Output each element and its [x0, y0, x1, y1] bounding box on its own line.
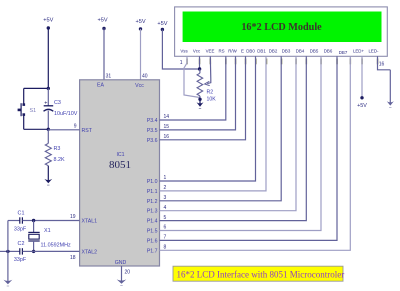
- wire VEE pin 3 to R2 wiper: [207, 56, 211, 83]
- svg-text:P1.1: P1.1: [147, 189, 158, 195]
- svg-text:P1.7: P1.7: [147, 248, 158, 254]
- svg-text:20: 20: [125, 270, 131, 276]
- svg-text:14: 14: [164, 114, 170, 120]
- svg-text:15: 15: [164, 124, 170, 130]
- node reset top junction: [47, 87, 50, 90]
- svg-text:E: E: [241, 49, 244, 54]
- wire Vcc pin 2 down: [199, 56, 201, 69]
- svg-text:+5V: +5V: [157, 21, 167, 27]
- svg-text:DB5: DB5: [310, 49, 319, 54]
- svg-text:C3: C3: [54, 100, 61, 106]
- svg-text:9: 9: [74, 124, 77, 130]
- ground below crystal caps: [7, 251, 9, 281]
- svg-text:8.2K: 8.2K: [54, 157, 65, 163]
- svg-text:31: 31: [106, 73, 112, 79]
- svg-text:P1.4: P1.4: [147, 219, 158, 225]
- wire P3.6 to LCD pin: [160, 56, 246, 140]
- svg-text:DB3: DB3: [282, 49, 291, 54]
- +5V supply at LED+: [357, 96, 367, 109]
- wire caps common down: [7, 221, 9, 252]
- svg-text:5: 5: [164, 215, 167, 221]
- wire P1.2 to DB2: [160, 56, 282, 201]
- caption banner: [173, 266, 344, 281]
- svg-text:XTAL1: XTAL1: [82, 219, 98, 225]
- wire +5V to pin 31: [103, 29, 105, 80]
- ground below LED-: [389, 70, 391, 103]
- wire Vss pin 1 to ground node: [184, 56, 200, 97]
- node RST junction: [47, 128, 50, 131]
- crystal X1: [28, 221, 71, 252]
- svg-text:16*2 LCD Module: 16*2 LCD Module: [241, 22, 322, 33]
- node R2 bottom junction: [198, 98, 201, 101]
- node XTAL1 junction: [32, 219, 35, 222]
- svg-text:+5V: +5V: [97, 18, 107, 24]
- svg-text:R/W: R/W: [228, 49, 237, 54]
- svg-text:Vcc: Vcc: [193, 49, 201, 54]
- svg-text:19: 19: [70, 214, 76, 220]
- svg-text:40: 40: [142, 73, 148, 79]
- svg-text:VEE: VEE: [206, 49, 215, 54]
- svg-text:DB6: DB6: [324, 49, 333, 54]
- svg-text:4: 4: [164, 205, 167, 211]
- svg-text:XTAL2: XTAL2: [82, 250, 98, 256]
- +5V supply (EA): [97, 18, 107, 31]
- +5V supply (reset): [43, 18, 53, 30]
- node R2 top junction: [198, 67, 201, 70]
- LCD module body: [175, 7, 388, 56]
- LCD pin name labels: [180, 49, 379, 55]
- wire LED- pin 16 jog: [378, 56, 391, 70]
- wire S1 bottom to RST node: [24, 128, 49, 130]
- svg-text:S1: S1: [30, 108, 37, 114]
- wire RST node to pin 9: [48, 129, 79, 131]
- svg-text:P3.5: P3.5: [147, 128, 158, 134]
- resistor R3: [45, 129, 65, 165]
- svg-text:+5V: +5V: [43, 18, 53, 24]
- svg-text:DB2: DB2: [269, 49, 278, 54]
- svg-text:P1.3: P1.3: [147, 209, 158, 215]
- +5V supply (LCD Vcc): [157, 21, 167, 31]
- wire XTAL1 to chip pin 19: [34, 220, 80, 222]
- svg-text:P3.4: P3.4: [147, 118, 158, 124]
- wire LED+ pin 15 down: [361, 56, 363, 98]
- svg-text:EA: EA: [97, 83, 104, 89]
- svg-text:DB1: DB1: [257, 49, 266, 54]
- svg-text:10uF/10V: 10uF/10V: [54, 111, 78, 117]
- svg-text:6: 6: [164, 225, 167, 231]
- svg-text:C1: C1: [18, 210, 25, 216]
- wire P1.5 to DB5: [160, 56, 322, 230]
- ground below R3: [47, 166, 49, 181]
- ground below R2: [199, 99, 201, 104]
- ground below GND pin: [121, 272, 123, 281]
- svg-text:7: 7: [164, 235, 167, 241]
- svg-text:RS: RS: [218, 49, 224, 54]
- svg-text:Vss: Vss: [180, 49, 188, 54]
- svg-text:P1.0: P1.0: [147, 179, 158, 185]
- wire P1.6 to DB6: [160, 56, 338, 240]
- svg-text:16: 16: [379, 62, 385, 68]
- svg-text:+5V: +5V: [135, 19, 145, 25]
- svg-text:11.0592MHz: 11.0592MHz: [41, 242, 71, 248]
- svg-text:18: 18: [70, 255, 76, 261]
- IC1 internal labels: [82, 83, 145, 267]
- wire P3.5 to LCD pin: [160, 56, 236, 130]
- svg-text:P1.6: P1.6: [147, 238, 158, 244]
- svg-text:P1.5: P1.5: [147, 229, 158, 235]
- svg-text:16: 16: [164, 134, 170, 140]
- wire P1.3 to DB3: [160, 56, 297, 210]
- svg-text:R2: R2: [207, 90, 214, 96]
- capacitor C3: [44, 88, 78, 129]
- svg-text:Vcc: Vcc: [135, 83, 144, 89]
- wire P3.4 to LCD pin: [160, 56, 226, 120]
- potentiometer R2: [197, 69, 216, 102]
- svg-text:GND: GND: [115, 260, 127, 266]
- svg-text:DB7: DB7: [339, 50, 348, 55]
- wire XTAL2 to chip pin 18: [34, 250, 80, 252]
- wire +5V to LCD Vcc node: [162, 30, 199, 70]
- +5V supply (Vcc): [135, 19, 145, 31]
- svg-text:DB4: DB4: [296, 49, 305, 54]
- capacitor C1: [8, 210, 34, 232]
- svg-text:LED-: LED-: [368, 49, 379, 54]
- capacitor C2: [8, 241, 34, 263]
- svg-text:IC1: IC1: [116, 152, 124, 158]
- R2 wiper arrow: [205, 81, 210, 85]
- wire P1.4 to DB4: [160, 56, 307, 220]
- svg-text:P3.6: P3.6: [147, 138, 158, 144]
- svg-text:+5V: +5V: [357, 103, 367, 109]
- svg-text:LED+: LED+: [353, 49, 365, 54]
- svg-text:8051: 8051: [109, 159, 131, 171]
- svg-text:RST: RST: [82, 128, 93, 134]
- svg-text:2: 2: [164, 185, 167, 191]
- wire P1.7 to DB7: [160, 56, 351, 250]
- 8051 microcontroller IC1: [80, 80, 160, 266]
- wire P1.0 to DB0: [160, 56, 256, 181]
- svg-text:1: 1: [180, 60, 183, 66]
- node XTAL2 junction: [32, 250, 35, 253]
- svg-text:33pF: 33pF: [14, 226, 27, 232]
- switch S1: [18, 88, 36, 129]
- wire GND pin 20: [121, 266, 123, 272]
- svg-text:P1.2: P1.2: [147, 199, 158, 205]
- svg-text:8: 8: [164, 245, 167, 251]
- svg-text:33pF: 33pF: [14, 257, 27, 263]
- svg-text:C2: C2: [18, 241, 25, 247]
- svg-text:DB0: DB0: [246, 49, 255, 54]
- LCD pin stubs: [186, 59, 378, 65]
- svg-text:16*2 LCD Interface with 8051 M: 16*2 LCD Interface with 8051 Microcontro…: [177, 269, 345, 279]
- LCD green screen: [183, 12, 382, 43]
- svg-text:3: 3: [164, 195, 167, 201]
- node C2 left junction: [6, 250, 9, 253]
- wire reset node to S1 top: [24, 87, 49, 89]
- svg-text:10K: 10K: [207, 96, 217, 102]
- svg-text:R3: R3: [54, 146, 61, 152]
- wire left stub: [0, 250, 8, 252]
- wire +5V to pin 40: [140, 29, 142, 80]
- svg-text:+: +: [44, 100, 47, 106]
- svg-text:X1: X1: [44, 228, 51, 234]
- svg-text:1: 1: [164, 175, 167, 181]
- wire +5V to reset node: [47, 28, 49, 88]
- wire P1.1 to DB1: [160, 56, 267, 191]
